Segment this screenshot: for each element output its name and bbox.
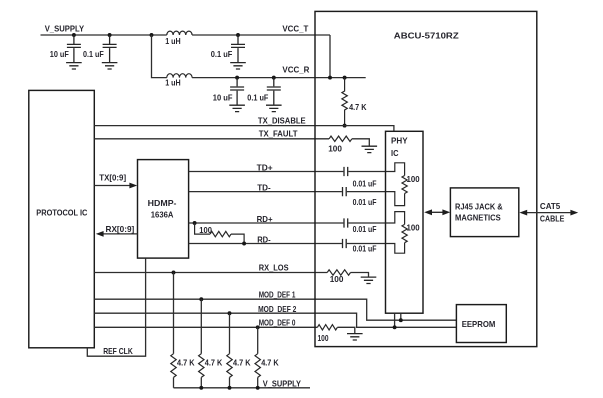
wire VCC_T line <box>192 34 330 36</box>
svg-text:TX_DISABLE: TX_DISABLE <box>258 116 306 126</box>
resistor R5 4.7K <box>200 299 202 354</box>
wire R10 to ground <box>351 273 369 277</box>
PHY IC box U3 <box>386 131 424 313</box>
ground C2 <box>102 63 118 69</box>
svg-text:4.7 K: 4.7 K <box>205 357 223 367</box>
junction VCC_T drop/VCC_R <box>328 76 332 80</box>
svg-text:RJ45 JACK &: RJ45 JACK & <box>455 202 503 212</box>
arrowhead RX bus <box>96 231 104 237</box>
svg-text:MOD_DEF 0: MOD_DEF 0 <box>259 318 296 328</box>
capacitor 0.01uF (RD-) <box>343 239 347 248</box>
EEPROM box U4 <box>456 305 506 343</box>
junction R1/TX_DISABLE <box>343 124 347 128</box>
wire TX_FAULT <box>94 138 329 140</box>
wire branch down to L2 <box>152 35 167 78</box>
junction rail/R6 <box>228 386 232 390</box>
svg-text:ABCU-5710RZ: ABCU-5710RZ <box>394 31 459 41</box>
svg-text:TD+: TD+ <box>257 162 273 172</box>
wire TD+ <box>189 171 386 173</box>
svg-text:TD-: TD- <box>257 182 271 192</box>
junction stub/MOD_DEF2 net <box>393 325 397 329</box>
junction MOD_DEF2/R6 <box>228 311 232 315</box>
ground C4 <box>266 105 282 111</box>
resistor R10 100 <box>327 270 350 275</box>
bus wire TX[0:9] <box>94 185 130 187</box>
resistor R11 100 (MOD_DEF0) <box>317 325 337 330</box>
junction stub/MOD_DEF1 net <box>399 318 403 322</box>
svg-text:0.01 uF: 0.01 uF <box>353 197 377 207</box>
wire REF CLK <box>87 258 145 356</box>
svg-text:V_SUPPLY: V_SUPPLY <box>45 24 85 34</box>
svg-text:RX_LOS: RX_LOS <box>259 263 289 273</box>
svg-text:PHY: PHY <box>391 135 408 145</box>
wire RD+ <box>189 222 386 224</box>
wire PHY pin stub to MOD_DEF1 net <box>400 313 402 320</box>
arrowhead (left, RJ45 side) <box>519 210 527 216</box>
junction R3/RD- <box>242 242 246 246</box>
junction RX_LOS/R4 <box>172 271 176 275</box>
wire PHY pin stub to MOD_DEF2 net <box>394 313 396 327</box>
svg-text:4.7 K: 4.7 K <box>177 357 195 367</box>
wire RX_LOS <box>94 272 327 274</box>
arrowhead (right, cable side) <box>570 210 578 216</box>
wire bottom V_SUPPLY rail <box>174 387 311 389</box>
wire MOD_DEF0 <box>94 326 317 328</box>
resistor R1 4.7K <box>342 78 347 126</box>
junction RD+/R3 <box>193 221 197 225</box>
svg-text:0.1 uF: 0.1 uF <box>211 49 233 59</box>
svg-text:100: 100 <box>407 174 420 184</box>
ground (MOD_DEF0 R11) <box>347 334 363 340</box>
junction rail/C2 <box>108 33 112 37</box>
ground C5 <box>230 63 246 69</box>
capacitor C1 10uF <box>67 35 81 62</box>
svg-text:VCC_T: VCC_T <box>282 23 308 33</box>
svg-text:0.01 uF: 0.01 uF <box>353 224 377 234</box>
svg-text:10 uF: 10 uF <box>50 49 69 59</box>
inductor L1 1uH <box>167 31 192 35</box>
capacitor C3 10uF <box>230 78 244 105</box>
junction VCC_R/C3 <box>235 76 239 80</box>
svg-text:IC: IC <box>391 148 399 158</box>
resistor R8 100 (TD termination) <box>386 163 405 176</box>
wire VCC_R line <box>192 77 366 79</box>
svg-text:4.7 K: 4.7 K <box>233 357 251 367</box>
svg-text:1636A: 1636A <box>151 209 174 219</box>
svg-text:TX_FAULT: TX_FAULT <box>259 128 298 138</box>
arrowhead (right, RJ45 side) <box>442 209 450 215</box>
capacitor C5 0.1uF <box>231 35 245 62</box>
svg-text:MAGNETICS: MAGNETICS <box>455 213 501 223</box>
junction rail/C1 <box>72 33 76 37</box>
wire top supply rail <box>41 34 167 36</box>
svg-text:0.1 uF: 0.1 uF <box>83 49 104 59</box>
junction VCC_T/C5cap <box>236 33 240 37</box>
inductor L2 1uH <box>167 74 192 78</box>
svg-text:10 uF: 10 uF <box>213 93 233 103</box>
capacitor C2 0.1uF <box>103 35 117 62</box>
svg-text:100: 100 <box>328 143 342 153</box>
svg-text:MOD_DEF 2: MOD_DEF 2 <box>258 304 297 314</box>
capacitor 0.01uF (TD-) <box>343 187 347 196</box>
svg-text:100: 100 <box>407 223 420 233</box>
resistor R3 100 (RD term) <box>195 223 211 234</box>
capacitor 0.01uF (RD+) <box>344 218 348 227</box>
junction VCC_R/R1 <box>343 76 347 80</box>
svg-text:V_SUPPLY: V_SUPPLY <box>263 378 302 388</box>
junction rail branch <box>150 33 154 37</box>
svg-text:1 uH: 1 uH <box>165 36 181 46</box>
svg-text:100: 100 <box>330 274 344 284</box>
ground (TX_FAULT R2) <box>362 146 378 152</box>
wire TX_DISABLE <box>94 126 394 132</box>
capacitor 0.01uF (TD+) <box>344 167 348 176</box>
svg-text:EEPROM: EEPROM <box>462 319 496 329</box>
svg-text:CAT5: CAT5 <box>540 201 561 211</box>
wire RJ45 to CAT5 cable <box>522 212 576 214</box>
svg-text:RD+: RD+ <box>257 214 273 224</box>
wire R2 to ground <box>352 139 369 146</box>
resistor R6 4.7K <box>229 313 231 354</box>
serdes U2 HDMP-1636A box <box>138 160 189 259</box>
ground (RX_LOS R10) <box>361 277 377 283</box>
wire MOD_DEF1 <box>94 299 456 320</box>
svg-text:0.1 uF: 0.1 uF <box>247 93 268 103</box>
svg-text:RD-: RD- <box>257 234 271 244</box>
svg-text:0.01 uF: 0.01 uF <box>353 244 377 254</box>
svg-text:0.01 uF: 0.01 uF <box>353 178 377 188</box>
resistor R7 4.7K <box>257 327 259 353</box>
junction rail/R7 <box>256 386 260 390</box>
ground C3 <box>229 105 245 111</box>
bus wire RX[0:9] <box>103 233 138 235</box>
svg-text:VCC_R: VCC_R <box>282 65 309 75</box>
junction MOD_DEF1/R5 <box>199 297 203 301</box>
junction MOD_DEF0/R7 <box>256 325 260 329</box>
wire PHY to RJ45 (diff pair bus) <box>427 211 448 213</box>
svg-text:TX[0:9]: TX[0:9] <box>99 172 126 182</box>
resistor R2 100 <box>329 136 352 141</box>
wire RD- <box>189 243 386 245</box>
arrowhead (left, PHY side) <box>424 209 432 215</box>
svg-text:HDMP-: HDMP- <box>148 198 177 208</box>
svg-text:CABLE: CABLE <box>540 214 565 224</box>
svg-text:PROTOCOL IC: PROTOCOL IC <box>36 207 87 217</box>
module ABCU-5710RZ outline <box>315 11 537 346</box>
capacitor C4 0.1uF <box>267 78 281 105</box>
arrowhead TX bus <box>129 183 137 189</box>
RJ45 jack & magnetics box <box>450 188 518 237</box>
protocol IC box U1 <box>29 90 95 347</box>
wire TD- <box>189 191 386 193</box>
svg-text:4.7 K: 4.7 K <box>261 357 279 367</box>
svg-text:1 uH: 1 uH <box>165 78 181 88</box>
svg-text:REF CLK: REF CLK <box>103 346 133 356</box>
svg-text:100: 100 <box>318 333 329 343</box>
junction VCC_R/C4 <box>272 76 276 80</box>
svg-text:RX[0:9]: RX[0:9] <box>106 224 135 234</box>
ground C1 <box>66 63 82 69</box>
svg-text:4.7 K: 4.7 K <box>349 102 366 112</box>
resistor R9 100 (RD termination) <box>386 212 405 225</box>
wire R11 to ground <box>337 327 354 333</box>
svg-text:100: 100 <box>199 225 212 235</box>
wire MOD_DEF2 <box>94 313 456 327</box>
resistor R4 4.7K <box>173 273 175 354</box>
junction rail/R5 <box>199 386 203 390</box>
wire VCC_T drop to VCC_R <box>329 35 331 78</box>
svg-text:MOD_DEF 1: MOD_DEF 1 <box>259 290 296 300</box>
